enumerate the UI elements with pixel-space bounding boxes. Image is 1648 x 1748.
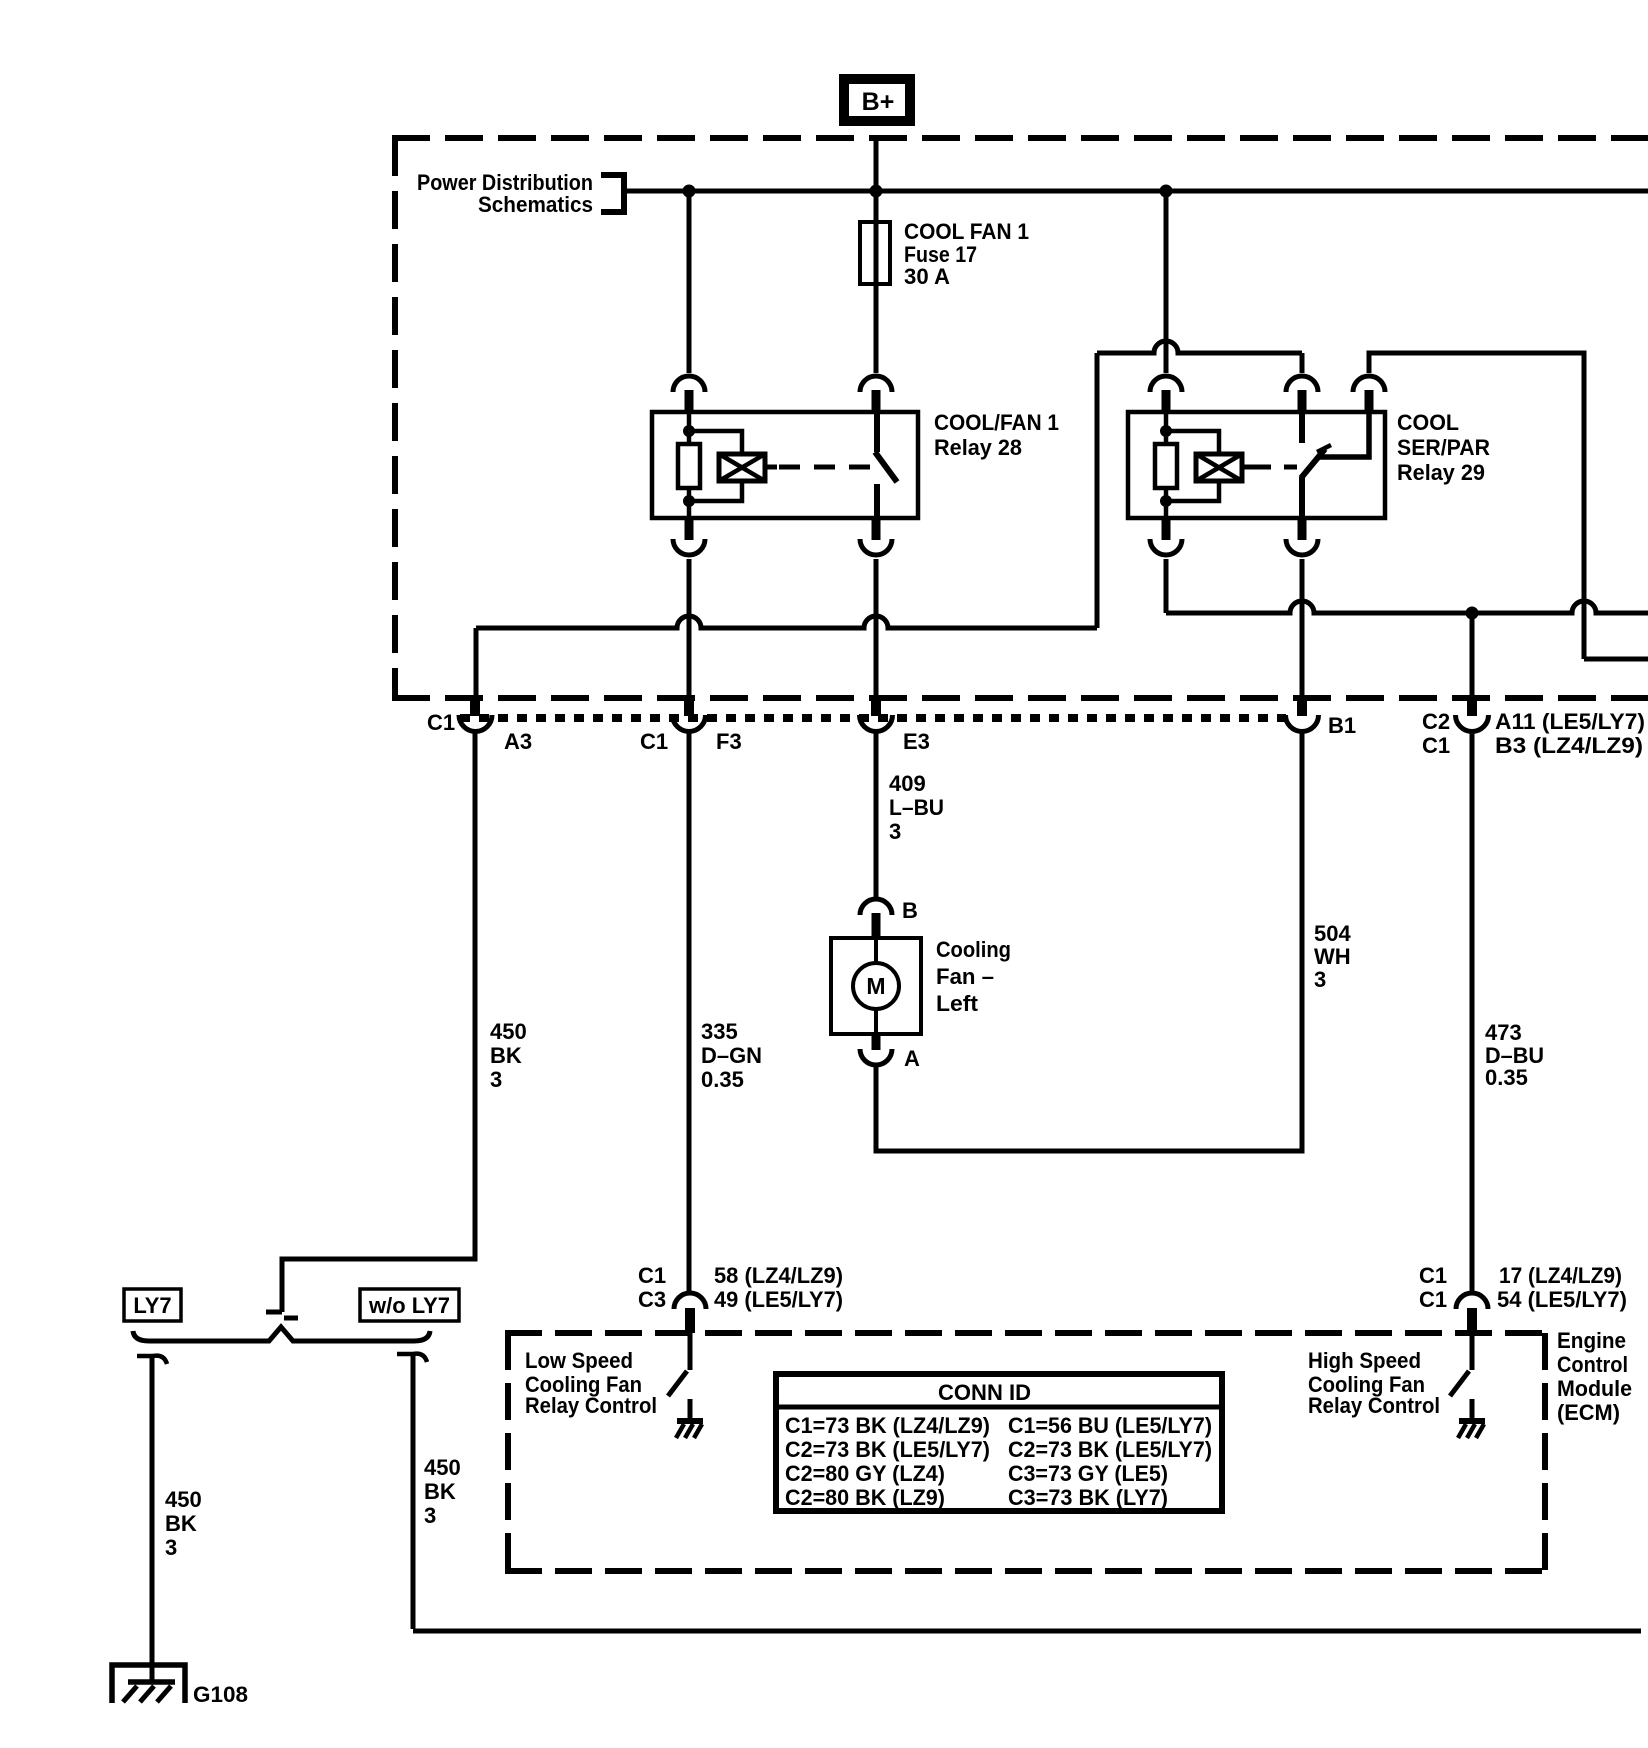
svg-text:Low Speed: Low Speed (525, 1348, 633, 1373)
label wire 504 WH 3 (1314, 921, 1351, 992)
svg-text:BK: BK (165, 1511, 197, 1536)
svg-text:w/o LY7: w/o LY7 (368, 1293, 450, 1318)
svg-text:Schematics: Schematics (478, 192, 593, 217)
label wire 473 D-BU 0.35 (1485, 1020, 1544, 1090)
wire 450 BK circuit A3 down-left to option split (282, 733, 475, 1312)
resistor relay28 internal (678, 444, 700, 488)
wire relay29-switch feed horizontal with hop over coil wire (1097, 341, 1302, 353)
node dot relay28 coil bottom (683, 495, 695, 507)
svg-text:LY7: LY7 (133, 1293, 171, 1318)
svg-text:335: 335 (701, 1019, 738, 1044)
node dot relay29 coil bottom (1160, 495, 1172, 507)
wire 335 D-GN circuit F3 down to ECM low side (687, 733, 692, 1291)
switch high speed driver (1450, 1333, 1472, 1396)
wire bus to relay28 coil pin (687, 191, 692, 373)
svg-text:Fan –: Fan – (936, 964, 994, 989)
svg-text:17 (LZ4/LZ9): 17 (LZ4/LZ9) (1499, 1263, 1622, 1288)
coil relay29 winding symbol (1196, 454, 1254, 481)
svg-text:B1: B1 (1328, 713, 1356, 738)
switch contacts relay29 (1301, 413, 1369, 518)
label relay 28 (934, 410, 1059, 460)
node junction dot y613/high speed control (1466, 607, 1479, 620)
relay28 coil feed wire inside (687, 413, 692, 444)
node dot relay28 coil top (683, 425, 695, 437)
relay K28 COOL/FAN 1 box (652, 412, 918, 518)
svg-text:WH: WH (1314, 944, 1351, 969)
svg-text:B3 (LZ4/LZ9): B3 (LZ4/LZ9) (1495, 733, 1643, 758)
connector terminal relay28 pin coil+ top (673, 376, 705, 413)
svg-text:Engine: Engine (1557, 1328, 1626, 1353)
connector terminal relay29 pin coil- bottom (1150, 517, 1182, 555)
wire bus to relay29 coil pin (1164, 191, 1169, 373)
svg-text:58 (LZ4/LZ9): 58 (LZ4/LZ9) (714, 1263, 843, 1288)
svg-text:C1: C1 (638, 1263, 666, 1288)
wire relay29 switch-out drop to B1 (1300, 559, 1305, 697)
svg-text:54 (LE5/LY7): 54 (LE5/LY7) (1497, 1287, 1627, 1312)
label relay 29 (1397, 410, 1490, 485)
label box LY7 (124, 1289, 181, 1321)
connector terminal E3 (860, 696, 893, 732)
wire relay29 coil- drop (1164, 559, 1169, 613)
switch low speed driver (668, 1333, 690, 1396)
connector terminal A fan motor (860, 1033, 892, 1065)
ground G108 (112, 1665, 185, 1703)
wire corner down to relay29 switch pin (1300, 353, 1305, 373)
wire relay28 coil parallel loop (689, 431, 742, 501)
label wire 409 L-BU 3 (889, 771, 944, 844)
wire main feed bus (627, 189, 1648, 194)
svg-text:BK: BK (424, 1479, 456, 1504)
connector hook LY7 branch (137, 1356, 167, 1364)
svg-text:450: 450 (490, 1019, 527, 1044)
svg-text:F3: F3 (716, 729, 742, 754)
svg-text:Module: Module (1557, 1376, 1632, 1401)
resistor relay29 internal (1155, 444, 1177, 488)
svg-text:COOL FAN 1: COOL FAN 1 (904, 219, 1029, 244)
svg-text:C3=73 BK (LY7): C3=73 BK (LY7) (1008, 1485, 1168, 1510)
wire below resistor (687, 488, 692, 518)
wire vertical link x1097 (1095, 353, 1100, 628)
B+ battery feed terminal (844, 79, 910, 121)
connector terminal B fan motor (860, 899, 892, 939)
svg-text:C3=73 GY (LE5): C3=73 GY (LE5) (1008, 1461, 1168, 1486)
connector C1/C1 terminal 17/54 (1456, 1293, 1488, 1333)
node junction dot bus/relay28 coil (683, 185, 696, 198)
label Low Speed Cooling Fan Relay Control (525, 1348, 657, 1418)
svg-text:0.35: 0.35 (1485, 1065, 1528, 1090)
connector terminal relay28 pin switch-out bottom (860, 517, 892, 555)
node junction dot bus/fuse (870, 185, 883, 198)
svg-text:30 A: 30 A (904, 264, 950, 289)
svg-text:C1: C1 (1419, 1263, 1447, 1288)
dashed actuation link relay29 (1254, 465, 1297, 470)
motor internal wires (874, 938, 878, 1034)
label wire 450 BK 3 (A3) (490, 1019, 527, 1092)
wire horizontal y628 with hops over relay28 drops (476, 616, 1097, 628)
wire 450 BK LY7 branch to G108 (150, 1358, 155, 1682)
wire corner down to connector A3 (474, 628, 479, 697)
wire relay29 common to right edge (1369, 353, 1584, 659)
svg-text:Left: Left (936, 991, 979, 1016)
svg-text:B: B (902, 898, 918, 923)
wire relay28 switch-out drop to E3 (874, 559, 879, 697)
connector C1/C3 terminal 58/49 (674, 1293, 706, 1333)
svg-text:C1: C1 (640, 729, 668, 754)
svg-text:High Speed: High Speed (1308, 1348, 1421, 1373)
wire 409 L-BU circuit E3 down to fan B (874, 733, 879, 897)
connector terminal relay29 pin switch-out bottom (1286, 517, 1318, 555)
svg-text:Control: Control (1557, 1352, 1628, 1377)
svg-text:3: 3 (165, 1535, 177, 1560)
wire relay28 coil- drop to F3 (687, 559, 692, 697)
svg-text:3: 3 (889, 819, 901, 844)
svg-text:A: A (904, 1046, 920, 1071)
svg-text:473: 473 (1485, 1020, 1522, 1045)
wire 504 WH fan A loop to B1 (876, 733, 1302, 1151)
labels connector row (427, 709, 1645, 758)
svg-text:SER/PAR: SER/PAR (1397, 435, 1490, 460)
wire below relay29 resistor (1164, 488, 1169, 518)
svg-text:D–GN: D–GN (701, 1043, 762, 1068)
svg-text:B+: B+ (862, 88, 895, 116)
labels C1 C3 / 58 49 (638, 1263, 843, 1312)
svg-text:3: 3 (424, 1503, 436, 1528)
svg-text:COOL/FAN 1: COOL/FAN 1 (934, 410, 1059, 435)
label Engine Control Module (ECM) (1557, 1328, 1632, 1425)
svg-text:C1=56 BU (LE5/LY7): C1=56 BU (LE5/LY7) (1008, 1413, 1212, 1438)
svg-text:C1: C1 (1419, 1287, 1447, 1312)
svg-text:(ECM): (ECM) (1557, 1400, 1620, 1425)
label wire 450 BK 3 w/o LY7 branch (424, 1455, 461, 1528)
labels C1 C1 / 17 54 (1419, 1263, 1627, 1312)
svg-text:C2=73 BK (LE5/LY7): C2=73 BK (LE5/LY7) (785, 1437, 990, 1462)
svg-text:Cooling: Cooling (936, 937, 1011, 962)
wire relay29 coil parallel loop (1166, 431, 1219, 501)
svg-text:A11 (LE5/LY7): A11 (LE5/LY7) (1495, 709, 1645, 734)
connector terminal relay29 pin switch top (1286, 376, 1318, 413)
wire B+ drop to bus (874, 137, 879, 191)
node junction dot bus/relay29 coil (1160, 185, 1173, 198)
table CONN ID (773, 1374, 1222, 1511)
svg-text:M: M (866, 973, 885, 999)
svg-text:49 (LE5/LY7): 49 (LE5/LY7) (714, 1287, 843, 1312)
bracket Power Distribution Schematics (601, 175, 624, 212)
wire high speed control drop (1470, 613, 1475, 697)
wire bus through fuse to relay28 switch pin (874, 191, 879, 373)
connector pass-through dotted line (460, 714, 1286, 722)
connector terminal B1 (1286, 696, 1319, 732)
label fuse 17 (904, 219, 1029, 289)
svg-text:0.35: 0.35 (701, 1067, 744, 1092)
connector C1 terminal F3 (673, 696, 706, 732)
svg-text:CONN ID: CONN ID (938, 1380, 1031, 1405)
label wire 450 BK 3 LY7 branch (165, 1487, 202, 1560)
svg-text:Relay 28: Relay 28 (934, 435, 1022, 460)
option split brace (133, 1327, 430, 1341)
svg-text:C2: C2 (1422, 709, 1450, 734)
label Cooling Fan Left (936, 937, 1011, 1016)
connector terminal relay29 pin common top-right (1353, 376, 1385, 413)
svg-text:450: 450 (424, 1455, 461, 1480)
svg-text:C1: C1 (427, 710, 455, 735)
motor M symbol (853, 963, 899, 1009)
node dot relay29 coil top (1160, 425, 1172, 437)
ground high speed driver (1458, 1399, 1485, 1438)
svg-text:3: 3 (1314, 967, 1326, 992)
dashed actuation link relay28 (779, 465, 886, 470)
ECM dashed box (505, 1333, 1545, 1571)
fuse F17 COOL FAN 1 30A (860, 222, 890, 284)
label wire 335 D-GN 0.35 (701, 1019, 762, 1092)
relay29 coil feed wire inside (1164, 413, 1169, 444)
label High Speed Cooling Fan Relay Control (1308, 1348, 1440, 1418)
svg-text:C2=80 GY (LZ4): C2=80 GY (LZ4) (785, 1461, 945, 1486)
svg-text:G108: G108 (193, 1682, 248, 1707)
svg-text:Relay Control: Relay Control (1308, 1393, 1440, 1418)
connector terminal relay28 pin coil- bottom (673, 517, 705, 555)
svg-text:C2=73 BK (LE5/LY7): C2=73 BK (LE5/LY7) (1008, 1437, 1212, 1462)
svg-text:C2=80 BK (LZ9): C2=80 BK (LZ9) (785, 1485, 945, 1510)
svg-text:3: 3 (490, 1067, 502, 1092)
svg-text:C3: C3 (638, 1287, 666, 1312)
coil relay28 winding symbol (719, 454, 777, 481)
connector C1 terminal A3 (459, 696, 492, 732)
wire y659 to right edge (1584, 657, 1648, 662)
connector terminal relay29 pin coil+ top (1150, 376, 1182, 413)
switch contacts relay28 (875, 413, 897, 518)
svg-text:Relay 29: Relay 29 (1397, 460, 1485, 485)
wire 473 D-BU circuit down to ECM high side (1470, 733, 1475, 1291)
svg-text:A3: A3 (504, 729, 532, 754)
svg-text:504: 504 (1314, 921, 1351, 946)
svg-text:COOL: COOL (1397, 410, 1459, 435)
svg-text:409: 409 (889, 771, 926, 796)
relay K29 COOL SER/PAR box (1128, 412, 1385, 518)
svg-text:C1=73 BK (LZ4/LZ9): C1=73 BK (LZ4/LZ9) (785, 1413, 990, 1438)
connector C2/C1 terminal A11/B3 (1456, 696, 1489, 732)
svg-text:C1: C1 (1422, 733, 1450, 758)
motor M1 cooling fan left box (831, 938, 921, 1034)
svg-text:Relay Control: Relay Control (525, 1393, 657, 1418)
label box w/o LY7 (360, 1289, 459, 1321)
connector terminal relay28 pin switch-in top (860, 376, 892, 413)
wire y613 relay29 coil- to right edge with hops (1166, 601, 1648, 613)
svg-text:450: 450 (165, 1487, 202, 1512)
svg-text:BK: BK (490, 1043, 522, 1068)
svg-text:E3: E3 (903, 729, 930, 754)
splice hook at option split (266, 1312, 298, 1318)
label Power Distribution Schematics (417, 170, 593, 217)
power distribution box dashed border (392, 138, 1648, 698)
svg-text:L–BU: L–BU (889, 795, 944, 820)
wire 450 BK w/o LY7 branch to right (413, 1356, 1641, 1631)
connector hook w/o LY7 branch (397, 1354, 427, 1362)
ground low speed driver (676, 1399, 703, 1438)
